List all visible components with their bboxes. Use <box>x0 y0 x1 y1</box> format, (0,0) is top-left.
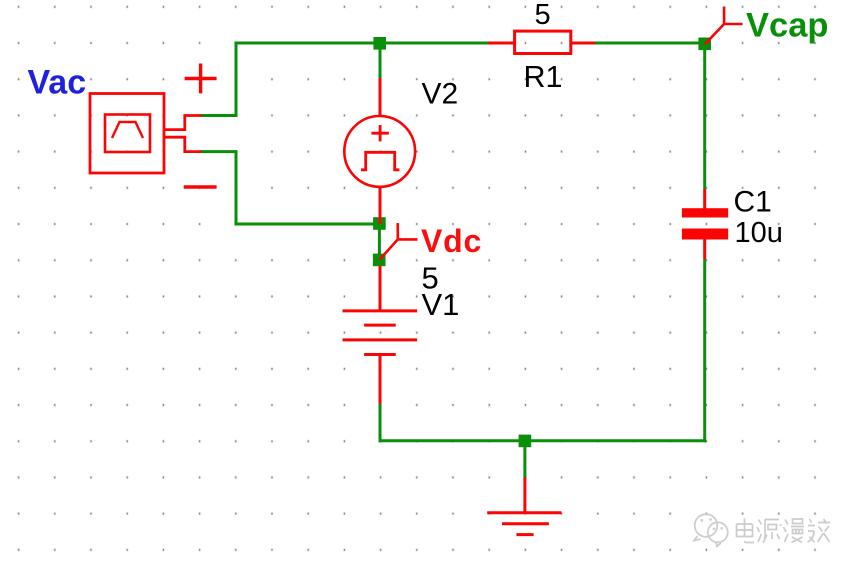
probe Vdc symbol <box>380 223 418 259</box>
node junction J4 Vdc lower <box>373 254 386 267</box>
battery V1 bottom pin <box>379 355 382 404</box>
wire right vertical above C1 <box>703 44 706 190</box>
wire V2 top stub <box>379 43 382 79</box>
capacitor C1 bottom plate <box>682 229 728 240</box>
wire left vertical lower <box>235 152 238 226</box>
node junction J5 ground <box>519 435 532 448</box>
watermark text yuan <box>757 520 782 543</box>
watermark wechat icon <box>694 514 728 546</box>
source V2 top pin <box>379 78 382 116</box>
node junction J1 top of V2 <box>373 37 386 50</box>
battery V1 long plate 2 <box>343 338 418 341</box>
wire horizontal to V2 bottom node <box>235 223 381 226</box>
svg-text:V2: V2 <box>422 78 459 111</box>
watermark text tan <box>808 519 831 543</box>
svg-text:Vac: Vac <box>28 64 87 102</box>
wire top net from Vac to resistor <box>235 42 490 45</box>
voltmeter Vac pin plus <box>164 116 202 130</box>
wire Vdc node segment <box>378 224 381 260</box>
wire right vertical below C1 <box>703 259 706 442</box>
source V2 bottom pin <box>379 187 382 224</box>
node junction J2 Vcap corner <box>698 38 711 51</box>
voltmeter Vac trapezoid waveform <box>112 122 143 138</box>
source V2 circle <box>344 116 415 187</box>
ground symbol stem <box>523 478 526 513</box>
battery V1 short plate 2 <box>364 353 396 356</box>
svg-text:10u: 10u <box>735 217 783 249</box>
svg-text:5: 5 <box>535 0 551 31</box>
wire battery to bottom net <box>379 403 382 442</box>
polarity minus sign <box>184 185 217 188</box>
svg-text:V1: V1 <box>422 287 460 322</box>
capacitor C1 bottom pin <box>703 239 706 259</box>
resistor R1 body <box>515 31 571 53</box>
battery V1 long plate 1 <box>343 309 418 312</box>
wire left vertical upper <box>235 42 238 116</box>
wire ground stub <box>523 441 526 479</box>
svg-text:Vcap: Vcap <box>746 7 828 45</box>
wire bottom net <box>379 439 707 442</box>
voltmeter Vac pin minus <box>164 137 202 151</box>
watermark text man <box>784 519 805 543</box>
wire top net resistor to right corner <box>594 42 706 45</box>
resistor R1 right pin <box>571 42 595 45</box>
watermark text dian <box>737 519 755 543</box>
wire Vac minus pin horizontal <box>201 150 238 153</box>
ground symbol bar 2 <box>502 522 549 525</box>
svg-text:Vdc: Vdc <box>421 223 482 259</box>
battery V1 top pin <box>379 266 382 312</box>
wire Vac plus pin horizontal <box>201 114 238 117</box>
svg-text:R1: R1 <box>524 60 563 94</box>
svg-text:C1: C1 <box>734 186 772 219</box>
polarity plus sign <box>185 64 217 94</box>
voltmeter Vac symbol outer box <box>90 94 164 174</box>
source V2 pulse waveform <box>361 152 399 170</box>
ground symbol bar 1 <box>487 511 561 514</box>
source V2 plus sign <box>371 125 388 141</box>
battery V1 short plate 1 <box>364 324 396 327</box>
capacitor C1 top plate <box>682 208 728 217</box>
ground symbol bar 3 <box>516 533 533 536</box>
node junction J3 Vdc upper <box>373 217 386 230</box>
capacitor C1 top pin <box>703 189 706 209</box>
voltmeter Vac inner box <box>105 115 150 153</box>
resistor R1 left pin <box>488 42 515 45</box>
probe Vcap symbol <box>705 7 743 45</box>
